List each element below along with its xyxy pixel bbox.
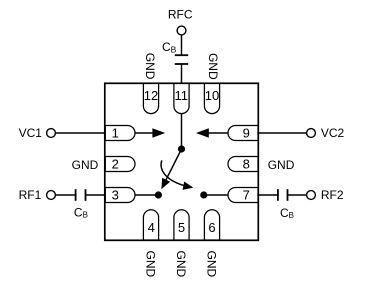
svg-text:6: 6 bbox=[208, 220, 215, 235]
svg-text:GND: GND bbox=[174, 251, 188, 278]
svg-text:9: 9 bbox=[243, 126, 250, 141]
svg-text:RF2: RF2 bbox=[321, 188, 344, 202]
svg-text:RFC: RFC bbox=[168, 8, 193, 22]
svg-text:10: 10 bbox=[205, 88, 219, 103]
svg-text:12: 12 bbox=[144, 88, 158, 103]
svg-text:5: 5 bbox=[178, 220, 185, 235]
svg-text:CB: CB bbox=[162, 40, 177, 55]
svg-text:GND: GND bbox=[268, 158, 295, 172]
svg-text:8: 8 bbox=[243, 157, 250, 172]
svg-text:GND: GND bbox=[205, 251, 219, 278]
svg-text:3: 3 bbox=[112, 188, 119, 203]
svg-text:VC2: VC2 bbox=[321, 126, 345, 140]
svg-text:2: 2 bbox=[112, 157, 119, 172]
svg-text:GND: GND bbox=[72, 158, 99, 172]
svg-text:11: 11 bbox=[175, 88, 189, 103]
svg-text:GND: GND bbox=[143, 53, 157, 80]
svg-text:GND: GND bbox=[144, 251, 158, 278]
svg-text:CB: CB bbox=[74, 206, 88, 220]
svg-text:1: 1 bbox=[112, 126, 119, 141]
svg-text:RF1: RF1 bbox=[19, 188, 42, 202]
svg-text:4: 4 bbox=[148, 220, 155, 235]
svg-text:CB: CB bbox=[280, 206, 294, 220]
svg-text:VC1: VC1 bbox=[19, 126, 43, 140]
svg-text:7: 7 bbox=[243, 188, 250, 203]
svg-text:GND: GND bbox=[206, 53, 220, 80]
